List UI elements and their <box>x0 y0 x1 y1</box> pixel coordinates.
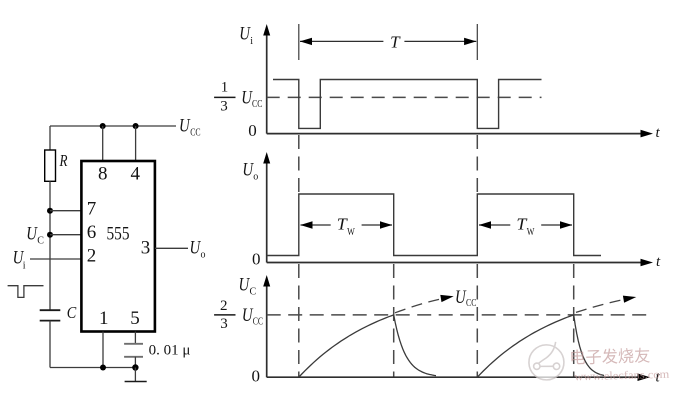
svg-text:3: 3 <box>141 238 151 259</box>
svg-text:U: U <box>190 238 202 259</box>
label UC axis <box>239 274 257 297</box>
capacitor 0.01u bottom plate <box>124 356 143 358</box>
curve UC charge 1 <box>299 315 394 377</box>
svg-text:CC: CC <box>252 98 262 110</box>
wire UCC top rail <box>50 125 176 127</box>
dashed vertical trigger1 to Uo <box>298 135 300 193</box>
axis UC horizontal t <box>267 373 650 381</box>
node junction dot pin8 rail <box>100 123 106 129</box>
wire pin5 lead <box>134 332 136 344</box>
wire pin6 <box>50 234 81 236</box>
svg-text:2: 2 <box>220 298 228 314</box>
label TW1 <box>337 215 355 239</box>
curve UC discharge 2 <box>574 315 604 376</box>
waveform Uo <box>267 194 601 256</box>
node junction dot pin4 rail <box>133 123 139 129</box>
axis Ui vertical <box>263 24 270 134</box>
svg-text:C: C <box>67 303 77 322</box>
axis Ui horizontal t <box>267 130 653 138</box>
svg-text:W: W <box>527 226 535 238</box>
svg-text:U: U <box>239 24 251 45</box>
svg-text:U: U <box>455 287 467 308</box>
dimension arrow TW1 <box>300 221 392 228</box>
IC 555 box U1 <box>81 161 154 332</box>
capacitor C bottom plate <box>40 320 61 322</box>
svg-text:4: 4 <box>131 164 141 185</box>
label Uo axis <box>242 160 258 183</box>
axis Uo vertical <box>263 152 270 263</box>
svg-text:U: U <box>239 274 251 295</box>
dashed vertical trigger2 to Uo <box>476 135 478 193</box>
ground symbol <box>125 368 147 382</box>
svg-text:6: 6 <box>87 222 97 243</box>
wire pin4 lead <box>135 126 137 161</box>
wire pin8 lead <box>102 126 104 161</box>
label 1/3 fraction <box>214 80 235 115</box>
axis Uo horizontal t <box>267 259 653 267</box>
label Ui input <box>13 248 26 272</box>
svg-text:1: 1 <box>99 308 109 329</box>
wire pin7 <box>50 210 81 212</box>
capacitor C top plate <box>40 309 61 311</box>
label UCC rail <box>179 116 201 139</box>
dimension arrow TW2 <box>479 221 572 228</box>
svg-text:o: o <box>253 172 258 183</box>
dashed vertical rise1 to UC <box>298 264 300 377</box>
label UCC level3 <box>242 305 263 328</box>
capacitor 0.01u top plate <box>124 343 143 345</box>
svg-text:U: U <box>26 224 38 245</box>
svg-text:C: C <box>37 236 44 247</box>
svg-text:W: W <box>347 226 355 238</box>
wire bottom rail <box>50 367 135 369</box>
dashed vertical rise2 to UC <box>476 264 478 377</box>
svg-text:电子发烧友: 电子发烧友 <box>569 346 650 367</box>
wire left rail mid <box>49 181 51 310</box>
node junction dot pin7 <box>47 208 53 214</box>
svg-text:555: 555 <box>107 223 130 244</box>
dashed line 2/3 UCC level <box>267 314 650 316</box>
svg-text:i: i <box>23 261 26 272</box>
dashed arrow asymptote 2 <box>576 296 636 313</box>
resistor R <box>45 150 56 181</box>
svg-text:0: 0 <box>252 367 261 386</box>
label Ui axis <box>239 24 253 47</box>
wire pin3 output <box>155 247 188 249</box>
label UCC level1 <box>241 87 262 109</box>
svg-text:i: i <box>250 36 253 47</box>
wire 0.01u to rail <box>134 357 136 368</box>
svg-text:0. 01 μ: 0. 01 μ <box>149 343 191 359</box>
svg-text:U: U <box>179 116 191 137</box>
label Uo output <box>190 238 206 261</box>
svg-text:0: 0 <box>248 121 257 140</box>
axis UC vertical <box>263 275 270 377</box>
svg-text:T: T <box>390 33 401 52</box>
svg-text:CC: CC <box>466 297 476 309</box>
svg-text:o: o <box>201 250 206 261</box>
node junction dot pin6 <box>47 232 53 238</box>
label UCC asymptote <box>455 287 476 309</box>
wire Ui to pin2 <box>30 258 81 260</box>
svg-text:C: C <box>250 286 257 297</box>
svg-text:CC: CC <box>253 316 263 328</box>
node junction dot pin1 ground <box>100 365 106 371</box>
curve UC discharge 1 <box>394 315 436 376</box>
dashed vertical fall1 to UC <box>393 264 395 377</box>
wire left rail upper <box>49 126 51 150</box>
svg-text:8: 8 <box>98 164 108 185</box>
svg-text:1: 1 <box>221 80 229 96</box>
dimension arrow T <box>300 38 477 45</box>
wire C to bottom rail <box>49 321 51 368</box>
svg-text:5: 5 <box>130 308 140 329</box>
label TW2 <box>516 215 534 239</box>
wire pin1 lead <box>102 332 104 368</box>
svg-text:0: 0 <box>252 250 261 269</box>
marker line T left <box>298 24 300 60</box>
svg-text:2: 2 <box>87 246 97 267</box>
dashed line 1/3 UCC level <box>267 96 542 98</box>
svg-text:7: 7 <box>87 199 97 220</box>
trigger pulse symbol <box>8 286 44 298</box>
label UC node <box>26 224 44 247</box>
curve UC charge 2 <box>477 315 573 377</box>
dashed vertical fall2 to UC <box>573 264 575 377</box>
label 2/3 fraction <box>214 298 235 332</box>
svg-text:CC: CC <box>190 127 200 139</box>
svg-text:3: 3 <box>220 316 228 332</box>
node junction dot pin5 ground <box>132 364 138 370</box>
svg-text:R: R <box>59 151 68 170</box>
dashed arrow asymptote 1 <box>395 295 454 313</box>
svg-text:3: 3 <box>220 98 228 114</box>
marker line T right <box>476 24 478 60</box>
waveform Ui <box>273 80 542 129</box>
